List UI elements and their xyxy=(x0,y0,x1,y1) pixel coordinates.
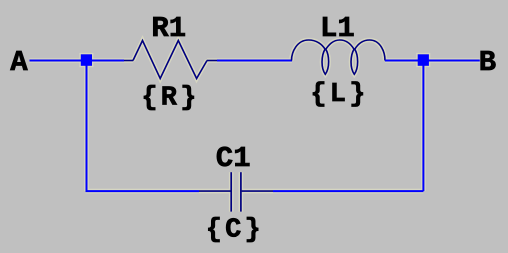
wire resistor to inductor L1 xyxy=(217,60,292,62)
resistor R1 right pin xyxy=(207,60,217,62)
inductor L1 coil body xyxy=(292,40,386,74)
junction node square 1 xyxy=(81,54,92,66)
svg-text:R1: R1 xyxy=(151,12,186,45)
halo under-strokes (screenshot resize ringing emulation) xyxy=(30,40,480,212)
svg-text:C1: C1 xyxy=(216,142,251,175)
capacitor C1 right plate xyxy=(240,172,242,211)
capacitor C1 left plate xyxy=(230,172,232,211)
wire inductor to junction 2 xyxy=(385,60,423,62)
bottom wire right segment xyxy=(273,190,423,192)
capacitor C1 right pin xyxy=(242,190,273,192)
svg-text:B: B xyxy=(479,46,496,79)
wire junction 2 to B xyxy=(423,60,479,62)
vertical wire from junction 1 down xyxy=(86,61,88,192)
resistor R1 zigzag body xyxy=(133,41,207,79)
svg-text:A: A xyxy=(10,46,28,79)
wire A to junction 1 xyxy=(30,60,87,62)
bottom wire left segment to capacitor xyxy=(86,190,200,192)
junction node square 2 xyxy=(418,54,429,66)
vertical wire from junction 2 down xyxy=(422,61,424,192)
svg-text:{R}: {R} xyxy=(141,84,199,114)
svg-text:{L}: {L} xyxy=(310,80,368,110)
capacitor C1 left pin xyxy=(199,190,231,192)
resistor R1 left pin xyxy=(124,60,133,62)
svg-text:{C}: {C} xyxy=(206,215,264,245)
svg-text:L1: L1 xyxy=(320,12,355,45)
wire junction 1 to resistor R1 left pin xyxy=(87,60,125,62)
